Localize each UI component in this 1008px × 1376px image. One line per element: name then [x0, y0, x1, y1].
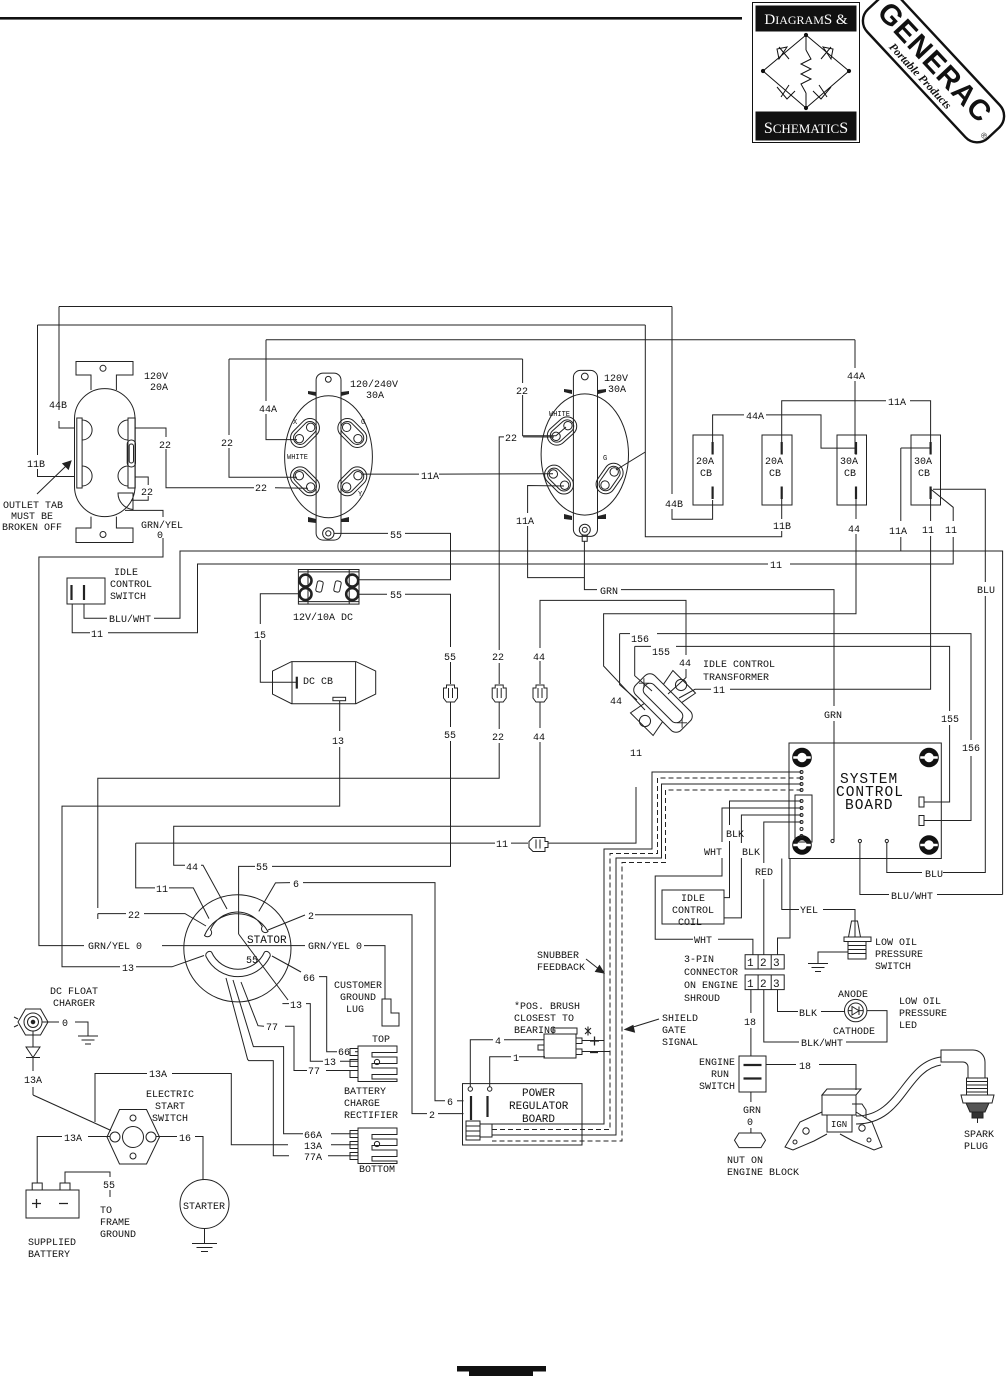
svg-text:BLU/WHT: BLU/WHT — [891, 891, 933, 903]
svg-text:44: 44 — [533, 653, 545, 664]
svg-text:MUST BE: MUST BE — [11, 512, 53, 523]
wire stator 11 to bullet-11 line — [136, 787, 636, 843]
text 12V receptacle — [254, 530, 402, 642]
text low oil pressure switch — [875, 938, 923, 973]
text snubber feedback — [537, 951, 585, 974]
wire stator 77A diagonal to BOTTOM pin3 — [226, 978, 358, 1156]
svg-text:G: G — [603, 455, 607, 463]
svg-text:11: 11 — [922, 526, 934, 537]
svg-text:GRN: GRN — [824, 711, 842, 722]
svg-text:PRESSURE: PRESSURE — [875, 950, 923, 961]
svg-text:22: 22 — [492, 653, 504, 664]
text dc float charger — [24, 987, 98, 1087]
svg-text:44A: 44A — [259, 405, 277, 416]
svg-text:3-PIN: 3-PIN — [684, 955, 714, 966]
svg-text:SHROUD: SHROUD — [684, 994, 720, 1005]
svg-text:CATHODE: CATHODE — [833, 1027, 875, 1038]
svg-text:11A: 11A — [888, 398, 906, 409]
wire 18 net to engine run switch — [750, 990, 752, 1056]
svg-text:TO: TO — [100, 1206, 112, 1217]
wire GRN/YEL 0 left — [39, 510, 185, 945]
svg-text:6: 6 — [447, 1098, 453, 1109]
wire 44B net (H1) — [59, 307, 713, 520]
stator — [184, 895, 291, 1002]
svg-text:REGULATOR: REGULATOR — [509, 1101, 569, 1113]
svg-text:4: 4 — [495, 1037, 501, 1048]
svg-text:CB: CB — [700, 469, 712, 480]
inline connector 55 — [444, 685, 458, 702]
svg-text:44A: 44A — [746, 412, 764, 423]
dc float charger jack — [14, 1009, 48, 1035]
wire stator 66 lead to TOP pin1 — [272, 956, 358, 1052]
svg-text:77: 77 — [266, 1023, 278, 1034]
svg-text:30A: 30A — [840, 457, 858, 468]
svg-text:*POS. BRUSH: *POS. BRUSH — [514, 1001, 580, 1013]
svg-text:GATE: GATE — [662, 1026, 686, 1037]
wire BLK coil upper — [724, 801, 802, 898]
brush assembly — [538, 1027, 591, 1059]
svg-text:11: 11 — [770, 561, 782, 572]
wire stator GRN/YEL right to lug — [291, 946, 385, 999]
svg-text:SWITCH: SWITCH — [875, 962, 911, 973]
top rule — [0, 17, 742, 20]
wire 11 net CB4 to transformer — [679, 499, 931, 698]
svg-text:COIL: COIL — [678, 918, 702, 929]
svg-text:ELECTRIC: ELECTRIC — [146, 1090, 194, 1101]
outlet 120V 30A twistlock (right) — [541, 370, 629, 541]
ground symbol charger — [78, 1036, 98, 1044]
customer ground lug — [382, 999, 399, 1026]
svg-text:11A: 11A — [516, 517, 534, 528]
svg-text:FRAME: FRAME — [100, 1218, 130, 1229]
text GRN 0 nut — [727, 1106, 799, 1179]
svg-text:CHARGE: CHARGE — [344, 1099, 380, 1110]
svg-text:IDLE: IDLE — [114, 568, 138, 579]
svg-text:RUN: RUN — [711, 1070, 729, 1081]
wire outlet1 tab jumper — [131, 477, 148, 500]
svg-text:1: 1 — [747, 979, 754, 991]
svg-text:13A: 13A — [304, 1142, 322, 1153]
svg-text:44: 44 — [533, 733, 545, 744]
wire 13 net DC CB to stator — [62, 701, 340, 967]
3-pin connector on engine shroud row1 — [745, 955, 784, 969]
text inline connector labels — [444, 653, 545, 744]
supplied battery — [26, 1183, 79, 1218]
idle control transformer (rotated 45) — [618, 658, 707, 747]
svg-text:30A: 30A — [608, 385, 626, 396]
svg-text:LOW OIL: LOW OIL — [899, 997, 941, 1008]
wire 55 loop outlet2 to 12V receptacle — [334, 533, 451, 579]
svg-text:55: 55 — [256, 863, 268, 874]
svg-text:44B: 44B — [49, 401, 67, 412]
svg-text:44: 44 — [848, 525, 860, 536]
text coil wires — [704, 830, 818, 917]
svg-text:22: 22 — [255, 484, 267, 495]
wire stator 13 lead to TOP pin2 — [282, 1004, 358, 1062]
svg-text:CB: CB — [769, 469, 781, 480]
wire 13A ESS to battery — [37, 1137, 110, 1184]
text LED labels — [799, 990, 947, 1050]
svg-text:55: 55 — [444, 731, 456, 742]
svg-text:CLOSEST TO: CLOSEST TO — [514, 1014, 574, 1025]
svg-text:66: 66 — [303, 974, 315, 985]
text transformer labels — [610, 635, 775, 760]
svg-text:CHARGER: CHARGER — [53, 999, 95, 1010]
svg-text:55: 55 — [390, 591, 402, 602]
wire starter ground — [204, 1229, 206, 1244]
svg-text:CONTROL: CONTROL — [672, 906, 714, 917]
svg-text:2: 2 — [429, 1111, 435, 1122]
text battery starter — [28, 1181, 225, 1261]
wire number labels top — [27, 372, 995, 597]
outlet tab arrow — [37, 461, 71, 494]
svg-text:CB: CB — [918, 469, 930, 480]
text power regulator board — [509, 1088, 569, 1126]
svg-text:30A: 30A — [366, 391, 384, 402]
svg-text:PRESSURE: PRESSURE — [899, 1009, 947, 1020]
svg-text:ANODE: ANODE — [838, 990, 868, 1001]
wire GRN net — [584, 541, 834, 841]
wire stator 2 lead — [268, 915, 464, 1114]
logo: GENERAC Portable Products (rotated) — [856, 0, 1008, 149]
text shield gate signal — [662, 1014, 698, 1049]
svg-text:11: 11 — [156, 885, 168, 896]
wire stator 6 lead — [259, 883, 464, 1101]
svg-text:YEL: YEL — [800, 906, 818, 917]
svg-text:BLU/WHT: BLU/WHT — [109, 614, 151, 626]
text right column labels — [824, 711, 980, 903]
svg-text:TOP: TOP — [372, 1035, 390, 1046]
text 3-pin connector — [684, 955, 738, 1005]
svg-text:GRN/YEL 0: GRN/YEL 0 — [308, 941, 362, 953]
svg-text:22: 22 — [505, 434, 517, 445]
svg-text:66A: 66A — [304, 1131, 322, 1142]
svg-text:16: 16 — [179, 1134, 191, 1145]
svg-text:22: 22 — [159, 441, 171, 452]
wire LOP switch ground — [818, 952, 848, 963]
svg-text:13: 13 — [332, 737, 344, 748]
svg-text:SWITCH: SWITCH — [699, 1082, 735, 1093]
svg-text:22: 22 — [141, 488, 153, 499]
svg-text:POWER: POWER — [522, 1088, 555, 1100]
wire BLK coil lower — [724, 815, 802, 918]
wire BLU net — [887, 489, 986, 872]
wire 55 net lower — [239, 594, 451, 1000]
wire 155 scb stub — [925, 801, 950, 803]
wire 44A net (H3) — [266, 340, 855, 454]
svg-text:2: 2 — [308, 912, 314, 923]
svg-text:120V: 120V — [604, 374, 628, 385]
circuit breaker 20A CB 2 — [762, 435, 792, 505]
circuit breaker 30A CB 4 — [911, 435, 941, 505]
svg-text:DC FLOAT: DC FLOAT — [50, 987, 98, 998]
svg-text:ENGINE BLOCK: ENGINE BLOCK — [727, 1168, 799, 1179]
svg-text:START: START — [155, 1102, 185, 1113]
svg-text:11: 11 — [496, 840, 508, 851]
spark plug — [941, 1050, 994, 1123]
idle control coil box — [662, 890, 724, 924]
svg-text:44: 44 — [679, 659, 691, 670]
text circuit breaker values — [696, 457, 932, 480]
electric start switch — [107, 1110, 160, 1165]
text idle control switch — [91, 568, 152, 641]
wire BLK net to LED — [778, 990, 845, 1012]
svg-text:BLK: BLK — [742, 848, 760, 859]
svg-text:SHIELD: SHIELD — [662, 1014, 698, 1025]
svg-text:G: G — [361, 419, 365, 427]
svg-text:CB: CB — [844, 469, 856, 480]
svg-text:22: 22 — [492, 733, 504, 744]
svg-text:1: 1 — [747, 958, 754, 970]
text engine run switch — [699, 1058, 735, 1093]
svg-text:OUTLET TAB: OUTLET TAB — [3, 501, 63, 512]
wire 11B net (H2) — [38, 325, 782, 537]
svg-text:44A: 44A — [847, 372, 865, 383]
svg-text:STATOR: STATOR — [247, 935, 287, 947]
svg-text:BATTERY: BATTERY — [344, 1087, 386, 1098]
idle control switch — [67, 578, 105, 604]
svg-text:SUPPLIED: SUPPLIED — [28, 1238, 76, 1249]
nut on engine block — [735, 1133, 766, 1148]
inline connector 44 — [533, 685, 547, 702]
svg-text:18: 18 — [799, 1062, 811, 1073]
svg-text:0: 0 — [157, 531, 163, 542]
svg-text:RED: RED — [755, 868, 773, 879]
svg-text:FEEDBACK: FEEDBACK — [537, 963, 585, 974]
svg-text:55: 55 — [103, 1181, 115, 1192]
bottom page badge — [457, 1366, 546, 1372]
ignition coil IGN — [785, 1089, 882, 1150]
text 4 1 6 2 labels — [429, 1037, 519, 1122]
svg-text:120V: 120V — [144, 372, 168, 383]
svg-text:0: 0 — [747, 1118, 753, 1129]
wire stator 66A diagonal to BOTTOM pin1 — [233, 980, 358, 1134]
svg-text:55: 55 — [444, 653, 456, 664]
text DC CB — [303, 677, 344, 748]
svg-text:12V/10A DC: 12V/10A DC — [293, 612, 353, 624]
system control board — [789, 743, 941, 859]
text stator leads — [88, 840, 508, 1034]
svg-text:6: 6 — [293, 880, 299, 891]
svg-text:55: 55 — [246, 956, 258, 967]
wire GRN 0 to nut — [750, 1092, 752, 1133]
svg-text:44: 44 — [610, 697, 622, 708]
wire 15 net — [260, 594, 299, 683]
svg-text:IGN: IGN — [831, 1120, 847, 1130]
text IGN — [831, 1120, 847, 1130]
snubber feedback bundle (2 solid 2 dashed) — [492, 772, 802, 1135]
diode 13A — [26, 1031, 40, 1095]
svg-text:2: 2 — [760, 958, 767, 970]
DC CB octagon — [273, 662, 376, 704]
svg-text:SWITCH: SWITCH — [152, 1114, 188, 1125]
wire stator 11 lead — [136, 843, 209, 919]
wire WHT net — [655, 808, 801, 955]
svg-text:13A: 13A — [24, 1076, 42, 1087]
12V/10A DC receptacle — [298, 570, 359, 605]
ground symbol starter — [192, 1244, 217, 1252]
svg-text:155: 155 — [941, 715, 959, 726]
low oil pressure switch — [844, 921, 871, 959]
text customer ground lug — [334, 981, 382, 1016]
svg-text:SCHEMATICS: SCHEMATICS — [764, 120, 848, 137]
wire 44 net CB3 to transformer — [604, 499, 856, 710]
svg-text:WHITE: WHITE — [549, 411, 570, 419]
wire 44A CB1 to CB3 jog — [713, 415, 856, 448]
svg-text:13A: 13A — [149, 1070, 167, 1081]
svg-text:22: 22 — [128, 911, 140, 922]
svg-text:18: 18 — [744, 1018, 756, 1029]
svg-text:ON ENGINE: ON ENGINE — [684, 981, 738, 992]
svg-text:WHITE: WHITE — [287, 454, 308, 462]
svg-text:GROUND: GROUND — [340, 993, 376, 1004]
svg-text:BOTTOM: BOTTOM — [359, 1165, 395, 1176]
wire 11A outlet3 drop — [528, 486, 585, 578]
wire 4 net brush — [470, 1040, 544, 1087]
svg-text:PLUG: PLUG — [964, 1142, 988, 1153]
wire stator GRN/YEL interior — [185, 945, 292, 947]
svg-text:120/240V: 120/240V — [350, 379, 398, 391]
text idle control coil — [672, 894, 714, 929]
svg-text:11B: 11B — [773, 522, 791, 533]
svg-text:15: 15 — [254, 631, 266, 642]
engine run switch — [739, 1056, 766, 1092]
wire 11A outlet2-outlet3 — [362, 473, 553, 475]
svg-text:GROUND: GROUND — [100, 1230, 136, 1241]
svg-text:44: 44 — [186, 863, 198, 874]
svg-text:13A: 13A — [64, 1134, 82, 1145]
svg-text:156: 156 — [962, 744, 980, 755]
svg-text:0: 0 — [62, 1019, 68, 1030]
svg-text:CONTROL: CONTROL — [110, 580, 152, 591]
svg-text:LOW OIL: LOW OIL — [875, 938, 917, 949]
svg-text:STARTER: STARTER — [183, 1202, 225, 1213]
svg-text:3: 3 — [773, 958, 780, 970]
svg-text:WHT: WHT — [704, 848, 722, 859]
svg-text:BROKEN OFF: BROKEN OFF — [2, 523, 62, 534]
logo: diode bridge emblem — [761, 33, 850, 109]
svg-text:WHT: WHT — [694, 936, 712, 947]
svg-text:CONNECTOR: CONNECTOR — [684, 968, 738, 979]
svg-text:44B: 44B — [665, 500, 683, 511]
text TOP BOTTOM rectifier — [304, 1035, 398, 1176]
svg-text:155: 155 — [652, 648, 670, 659]
svg-text:77: 77 — [308, 1067, 320, 1078]
text stator — [247, 935, 287, 947]
wire BLK/WHT net to LED — [764, 990, 887, 1042]
svg-text:66: 66 — [338, 1048, 350, 1059]
svg-text:11: 11 — [630, 749, 642, 760]
spark plug wire — [856, 1057, 941, 1124]
svg-text:1: 1 — [513, 1054, 519, 1065]
ground symbol LOP — [808, 964, 828, 972]
svg-text:IDLE: IDLE — [681, 894, 705, 905]
svg-text:SPARK: SPARK — [964, 1130, 994, 1141]
brush plus minus — [590, 1037, 599, 1053]
circuit breaker 30A CB 3 — [837, 435, 867, 505]
text electric start switch — [64, 1070, 194, 1145]
wire battery minus to frame ground 55 — [65, 1172, 110, 1197]
wire 3pin cell3 up — [778, 859, 791, 955]
svg-text:30A: 30A — [914, 457, 932, 468]
shield gate signal arrow — [625, 1019, 659, 1032]
svg-text:11: 11 — [91, 630, 103, 641]
svg-text:2: 2 — [760, 979, 767, 991]
wire 1 net brush — [490, 1057, 545, 1087]
svg-text:BEARING: BEARING — [514, 1026, 556, 1037]
svg-text:3: 3 — [773, 979, 780, 991]
wire 155 net — [635, 646, 950, 802]
svg-text:DIAGRAMS &: DIAGRAMS & — [764, 12, 848, 28]
wire BLU/WHT net — [84, 551, 1003, 895]
svg-text:20A: 20A — [150, 383, 168, 394]
wire YEL net — [782, 859, 855, 938]
svg-text:LED: LED — [899, 1021, 917, 1032]
wire brush stubs to bundle — [582, 1041, 610, 1052]
wire stator 77 lead to TOP pin3 — [241, 982, 358, 1071]
wire 11 net CB4 to idle control switch — [72, 489, 953, 633]
svg-text:BOARD: BOARD — [845, 798, 894, 814]
svg-text:SWITCH: SWITCH — [110, 592, 146, 603]
svg-text:ENGINE: ENGINE — [699, 1058, 735, 1069]
svg-text:13: 13 — [290, 1001, 302, 1012]
wire 44 net connector to transformer and stator — [174, 600, 686, 909]
text pos brush note — [514, 1001, 580, 1037]
text WHT label — [694, 936, 712, 947]
wire 18 net ERS to IGN — [766, 1065, 856, 1091]
svg-text:BLK: BLK — [726, 830, 744, 841]
svg-text:11A: 11A — [421, 472, 439, 483]
svg-text:BLU: BLU — [977, 586, 995, 597]
svg-text:IDLE CONTROL: IDLE CONTROL — [703, 660, 775, 671]
svg-text:20A: 20A — [696, 457, 714, 468]
starter — [180, 1180, 229, 1229]
wire RED net — [764, 822, 802, 955]
svg-text:22: 22 — [516, 387, 528, 398]
svg-text:CUSTOMER: CUSTOMER — [334, 981, 382, 992]
wire 22 net outlet3 to stator — [98, 437, 554, 926]
svg-text:BLK: BLK — [799, 1009, 817, 1020]
logo: Diagrams & Schematics box — [753, 3, 860, 143]
svg-text:SNUBBER: SNUBBER — [537, 951, 579, 962]
outlet 120V 20A duplex (left) — [75, 362, 136, 543]
svg-text:BOARD: BOARD — [522, 1114, 555, 1126]
svg-text:GRN: GRN — [743, 1106, 761, 1117]
wire 16 ESS to starter — [156, 1137, 203, 1180]
text 3-pin digits — [747, 958, 780, 991]
wire 156 scb stub — [925, 820, 972, 822]
wire charger 0 to ground — [42, 1022, 88, 1036]
svg-text:NUT ON: NUT ON — [727, 1156, 763, 1167]
text 18 labels — [744, 1018, 811, 1073]
text spark plug — [964, 1130, 994, 1153]
wire 22 net upper (H4) — [229, 359, 566, 477]
svg-text:TRANSFORMER: TRANSFORMER — [703, 673, 769, 684]
svg-text:DC CB: DC CB — [303, 677, 333, 688]
text outlet tab note — [2, 501, 63, 534]
svg-text:11: 11 — [713, 686, 725, 697]
socket letter labels — [287, 411, 607, 499]
battery charge rectifier TOP connector — [350, 1046, 397, 1082]
power regulator board — [463, 1084, 583, 1145]
svg-text:SIGNAL: SIGNAL — [662, 1038, 698, 1049]
wire 11A stub CB4 — [901, 448, 931, 551]
low oil pressure LED — [845, 999, 867, 1021]
text system control board — [836, 772, 904, 814]
svg-text:BATTERY: BATTERY — [28, 1250, 70, 1261]
wire 13A diagonal to ESS — [33, 1095, 111, 1131]
svg-text:LUG: LUG — [346, 1005, 364, 1016]
